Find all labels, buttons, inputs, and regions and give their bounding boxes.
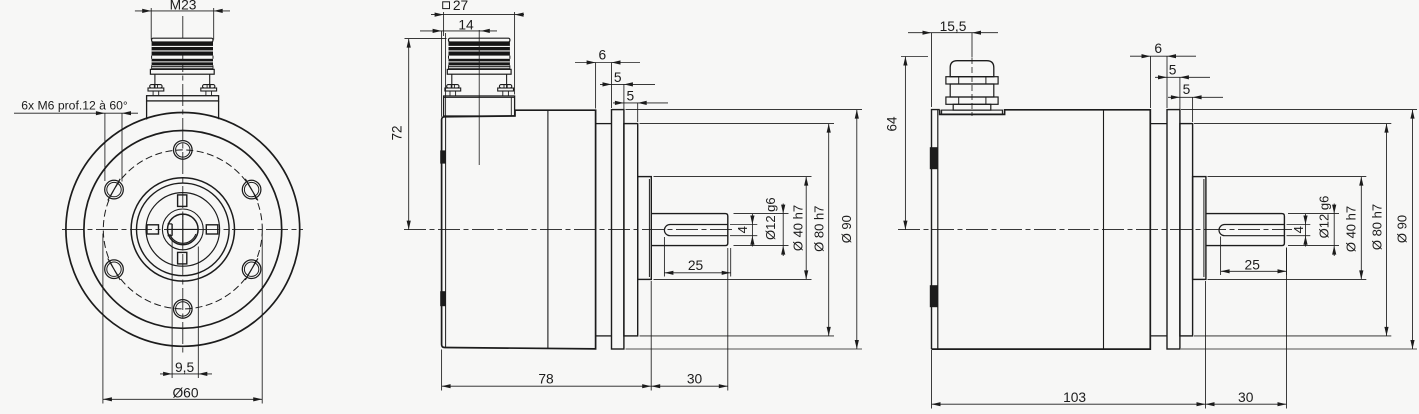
svg-text:15,5: 15,5 [940,19,967,34]
cable gland dome cap [950,61,994,77]
housing body outline (middle view) [442,110,596,349]
cable gland neck [950,84,994,97]
svg-text:30: 30 [1238,390,1254,405]
boss circle inner [137,183,230,276]
svg-text:103: 103 [1063,390,1086,405]
coupling slot right [206,225,218,234]
M23 connector knurled band lower [449,59,510,66]
connector base side left [146,101,148,120]
M23 connector ring flange [150,69,214,74]
svg-text:72: 72 [390,125,405,140]
clamp tab lower (right view) [930,285,938,307]
svg-text:6x M6 prof.12 à 60°: 6x M6 prof.12 à 60° [21,99,128,113]
flange plate D90 [612,110,624,349]
M23 connector thread lines [449,65,510,67]
svg-text:27: 27 [453,0,468,13]
screw M6 upper-right [242,180,261,199]
clamp tab upper (right view) [930,147,938,169]
coupling slot top [178,195,187,207]
coupling slot bottom [178,252,187,264]
screw M6 lower-left [105,260,124,279]
rear cover inner line (right) [937,110,939,349]
svg-text:25: 25 [688,258,704,273]
M23 connector ring flange [447,69,511,74]
svg-text:6: 6 [1154,41,1162,56]
svg-text:Ø 90: Ø 90 [839,215,854,243]
connector base (middle view) [444,96,515,116]
cable gland axis line [971,58,973,116]
svg-text:9,5: 9,5 [175,360,195,375]
mounting screw left [447,85,459,88]
flange plate D90 (right) [1167,110,1180,349]
D80 spigot (right view) [1151,123,1168,125]
screw M6 bottom [174,300,193,319]
M23 connector coupling ring cap [152,38,213,42]
clamp tab lower (middle view) [440,291,445,306]
svg-text:Ø60: Ø60 [172,386,198,401]
clamp tab upper (middle view) [440,150,445,163]
housing joint line [547,110,549,348]
svg-text:64: 64 [885,116,900,132]
svg-text:25: 25 [1245,258,1261,273]
center cross (left view) [167,228,198,230]
dimension square-27 [443,2,450,9]
boss face chamfer line (right) [1203,179,1205,277]
housing circle [84,131,282,329]
shaft collar circle [162,209,203,250]
mounting screw right [203,85,215,88]
svg-text:Ø 80 h7: Ø 80 h7 [1370,204,1385,250]
svg-text:4: 4 [1291,226,1306,233]
pilot circle [146,193,220,267]
M23 connector knurled band upper [152,42,213,56]
connector base plate (left view) [147,96,219,101]
keyway slot (right view) [1219,225,1284,236]
cable gland collar [953,104,991,110]
svg-text:Ø 90: Ø 90 [1395,215,1410,243]
center line horizontal (left view) [62,228,303,230]
bolt circle D60 (dashed) [103,150,262,309]
M23 connector ring gap [151,56,153,59]
svg-text:Ø 40 h7: Ø 40 h7 [1343,206,1358,252]
screw M6 top [174,141,193,160]
mounting screw right [499,85,511,88]
M23 connector thread lines [152,65,213,67]
rear cover inner line [445,117,447,347]
boss circle outer [131,178,234,281]
svg-text:Ø12 g6: Ø12 g6 [1316,196,1331,239]
mounting screw left [150,85,162,88]
M23 connector knurled band lower [152,59,213,66]
connector base side right [218,101,220,119]
M23 connector coupling ring cap [449,38,510,42]
svg-text:Ø12 g6: Ø12 g6 [763,197,778,240]
D80 spigot between body and flange [596,123,612,125]
svg-text:Ø 80 h7: Ø 80 h7 [812,206,827,252]
axis center line (right view) [898,229,1292,231]
rear cover sliver (right view) [932,110,940,350]
M23 connector ring gap [448,56,450,59]
cable gland base plate [942,110,1003,114]
connector base right inner line [510,97,512,115]
keyway slot (middle view) [664,225,727,236]
shaft boss D40 [638,177,652,280]
keyway flat on shaft [171,224,173,236]
shaft D12 (right view) [1206,214,1285,246]
housing body outline (right view) [932,110,1151,350]
coupling slot left [147,225,159,234]
cable gland hex nut lower [946,97,998,104]
shaft D12 (middle view) [651,214,728,246]
connector axis line (middle view) [478,30,480,165]
svg-text:5: 5 [614,70,622,85]
center line vertical (left view) [182,16,184,356]
flange plate D80 (right) [1180,124,1193,336]
screw M6 upper-left [105,180,124,199]
svg-text:30: 30 [687,372,703,387]
svg-text:5: 5 [1183,82,1191,97]
svg-text:78: 78 [538,372,554,387]
M23 connector knurled band upper [449,42,510,56]
screw M6 lower-right [242,260,261,279]
flange plate D80 [624,124,638,336]
M23 connector neck [154,74,156,87]
svg-text:14: 14 [458,18,474,33]
flange outer circle D90 [66,112,300,346]
connector base top inner line [444,96,515,98]
shaft bore arc [170,234,196,243]
svg-text:Ø 40 h7: Ø 40 h7 [790,205,805,251]
shaft boss D40 (right) [1193,177,1206,280]
svg-text:4: 4 [735,226,750,233]
axis center line (middle view) [404,229,735,231]
svg-text:6: 6 [598,48,606,63]
boss face chamfer line [648,179,650,277]
housing joint line (right) [1103,110,1105,349]
cable gland hex nut upper [946,77,998,84]
shaft circle D12 [168,214,199,245]
svg-text:5: 5 [627,88,635,103]
svg-text:M23: M23 [170,0,197,12]
svg-text:5: 5 [1169,62,1177,77]
M23 connector neck [451,74,453,87]
